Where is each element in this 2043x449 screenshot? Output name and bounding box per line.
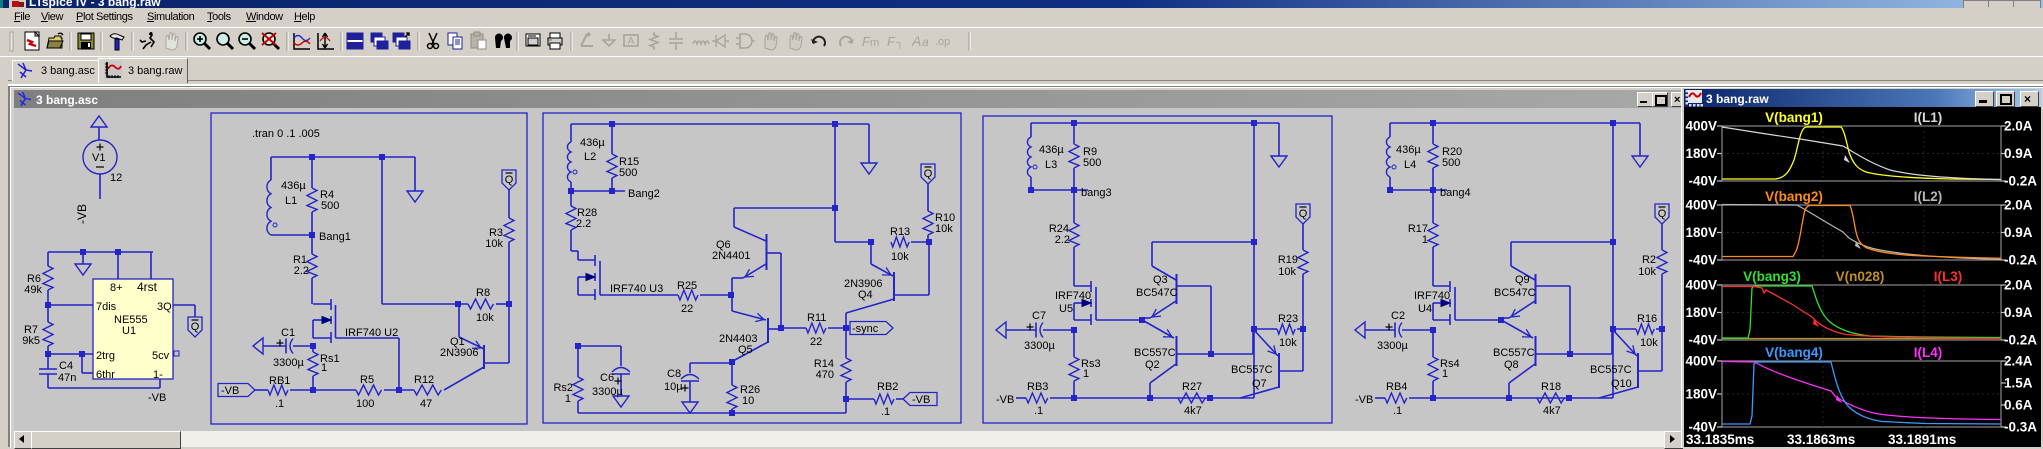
svg-text:400V: 400V xyxy=(1685,119,1717,134)
svg-text:-VB: -VB xyxy=(1355,394,1373,406)
svg-text:Q9: Q9 xyxy=(1515,274,1530,286)
wire gate xyxy=(600,294,678,296)
svg-text:a: a xyxy=(922,35,929,49)
svg-text:U1: U1 xyxy=(122,325,136,337)
waveform client area xyxy=(1684,107,2041,447)
wire bottom to pin 1 xyxy=(48,387,160,389)
svg-text:Q5: Q5 xyxy=(738,344,753,356)
svg-text:33.1891ms: 33.1891ms xyxy=(1888,432,1956,447)
capacitor C1 3300u xyxy=(253,327,313,369)
junction node bang4 xyxy=(1430,187,1436,193)
inductor L3 436u xyxy=(1027,123,1064,190)
main application title bar xyxy=(0,0,2043,8)
junction xyxy=(45,351,51,357)
svg-text:10k: 10k xyxy=(476,312,494,324)
svg-text:L2: L2 xyxy=(584,151,596,163)
svg-text:L1: L1 xyxy=(285,195,297,207)
svg-text:.1: .1 xyxy=(881,406,890,418)
resistor R4 500 xyxy=(307,157,339,235)
junction xyxy=(1387,187,1393,193)
resistor R8 10k xyxy=(468,287,494,324)
svg-text:V(bang4): V(bang4) xyxy=(1765,345,1823,360)
svg-text:0.9A: 0.9A xyxy=(2004,146,2033,161)
ground xyxy=(1278,123,1280,156)
ground xyxy=(613,396,629,407)
resistor R20 500 xyxy=(1428,123,1462,190)
svg-text:.op: .op xyxy=(935,36,950,48)
svg-text:R23: R23 xyxy=(1278,313,1298,325)
wire to bottom rail xyxy=(1612,329,1614,398)
toolbar icon: move (greyed) xyxy=(765,33,777,50)
toolbar icon: capacitor (greyed) xyxy=(669,32,683,50)
schematic window title bar (inactive) xyxy=(14,90,1681,108)
svg-text:500: 500 xyxy=(1442,157,1460,169)
junction node Bang1 xyxy=(309,232,315,238)
svg-text:F: F xyxy=(887,34,896,49)
svg-text:10µ: 10µ xyxy=(664,381,683,393)
transistor Q3 BC547C xyxy=(1136,242,1211,320)
wire top rail box4 xyxy=(1390,122,1640,124)
voltage source V1 12 xyxy=(83,140,122,184)
junction xyxy=(1498,317,1504,323)
waveform window frame xyxy=(1681,87,2043,448)
svg-text:Q10: Q10 xyxy=(1611,378,1632,390)
svg-text:2.2: 2.2 xyxy=(576,218,591,230)
resistor R19 10k xyxy=(1278,224,1308,329)
svg-text:A: A xyxy=(911,33,921,49)
svg-text:470: 470 xyxy=(816,369,834,381)
svg-text:22: 22 xyxy=(681,303,693,315)
wire xyxy=(781,327,806,329)
trace I(L2) xyxy=(1722,205,2001,260)
ground xyxy=(82,252,84,264)
svg-text:-40V: -40V xyxy=(1688,333,1717,348)
svg-text:Q: Q xyxy=(1299,208,1308,220)
svg-text:2.0A: 2.0A xyxy=(2004,198,2033,213)
svg-text:V(bang1): V(bang1) xyxy=(1765,110,1823,125)
svg-text:3300µ: 3300µ xyxy=(1024,340,1055,352)
svg-text:10k: 10k xyxy=(1640,337,1658,349)
junction xyxy=(1251,239,1257,245)
svg-text:400V: 400V xyxy=(1685,278,1717,293)
ground xyxy=(682,402,698,413)
svg-text:.tran 0 .1 .005: .tran 0 .1 .005 xyxy=(252,128,320,140)
svg-text:RB1: RB1 xyxy=(269,375,290,387)
wire xyxy=(828,327,850,329)
svg-text:Bang2: Bang2 xyxy=(628,188,660,200)
resistor Rs3 1 xyxy=(1069,330,1101,398)
svg-text:I(L1): I(L1) xyxy=(1914,110,1943,125)
inductor L1 436u xyxy=(267,157,306,235)
toolbar icon: cut xyxy=(428,33,439,49)
toolbar icon: run xyxy=(140,32,154,49)
resistor R9 500 xyxy=(1069,123,1101,190)
junction xyxy=(1567,351,1573,357)
svg-text:R16: R16 xyxy=(1637,313,1657,325)
junction xyxy=(1251,326,1257,332)
toolbar icon: diode (greyed) xyxy=(712,35,729,47)
resistor Rs1 1 xyxy=(308,346,340,390)
junction xyxy=(1610,120,1616,126)
junction node bang3 xyxy=(1071,187,1077,193)
junction xyxy=(843,396,849,402)
wire to pin 4 xyxy=(150,252,152,280)
svg-text:3Q: 3Q xyxy=(157,301,172,313)
toolbar icon: plot settings xyxy=(294,33,310,49)
resistor R7 9k5 xyxy=(22,305,53,354)
wire central vertical box4 xyxy=(1612,123,1614,329)
wire bases vertical xyxy=(780,253,782,328)
junction xyxy=(832,121,838,127)
svg-text:180V: 180V xyxy=(1685,387,1717,402)
tab: 3 bang.asc xyxy=(12,60,99,81)
svg-text:436µ: 436µ xyxy=(1039,144,1064,156)
wire xyxy=(98,127,100,140)
trace V(bang1) xyxy=(1722,127,2001,180)
svg-text:3300µ: 3300µ xyxy=(273,357,304,369)
junction xyxy=(1071,120,1077,126)
svg-text:1: 1 xyxy=(1442,368,1448,380)
wire xyxy=(384,389,414,391)
transistor Q10 BC557C xyxy=(1590,329,1662,398)
svg-text:-VB: -VB xyxy=(75,204,89,224)
junction xyxy=(309,154,315,160)
capacitor C8 10u xyxy=(664,363,699,402)
svg-text:R25: R25 xyxy=(677,280,697,292)
svg-text:R27: R27 xyxy=(1182,381,1202,393)
tab bar xyxy=(0,56,2043,88)
junction xyxy=(1071,327,1077,333)
wire central vertical xyxy=(381,157,383,304)
toolbar icon: tile vertically xyxy=(371,33,388,49)
junction xyxy=(609,121,615,127)
svg-text:2N4401: 2N4401 xyxy=(712,250,751,262)
junction xyxy=(115,249,121,255)
toolbar icon: component (greyed) xyxy=(736,34,755,48)
svg-text:bang3: bang3 xyxy=(1081,187,1112,199)
svg-text:-40V: -40V xyxy=(1688,253,1717,268)
wire xyxy=(911,241,929,243)
svg-text:BC557C: BC557C xyxy=(1590,364,1632,376)
svg-text:2N3906: 2N3906 xyxy=(440,347,479,359)
junction xyxy=(1610,239,1616,245)
resistor R14 470 xyxy=(814,328,851,399)
transistor Q2 BC557C xyxy=(1134,321,1211,398)
node Q flag xyxy=(1655,204,1669,224)
svg-text:I(L4): I(L4) xyxy=(1914,345,1943,360)
resistor R11 22 xyxy=(806,312,826,348)
svg-text:500: 500 xyxy=(1083,157,1101,169)
svg-text:Q: Q xyxy=(924,168,933,180)
svg-text:49k: 49k xyxy=(24,284,42,296)
resistor R16 10k xyxy=(1613,313,1662,349)
toolbar icon: inductor (greyed) xyxy=(693,41,709,44)
svg-text:.1: .1 xyxy=(1034,405,1043,417)
svg-text:33.1863ms: 33.1863ms xyxy=(1787,432,1855,447)
svg-text:12: 12 xyxy=(110,172,122,184)
svg-text:180V: 180V xyxy=(1685,225,1717,240)
svg-text:500: 500 xyxy=(619,167,637,179)
junction xyxy=(568,188,574,194)
wire Q9 collector to central xyxy=(1511,241,1613,243)
node Q flag xyxy=(921,164,935,184)
mosfet U3 IRF740 xyxy=(571,251,663,300)
junction xyxy=(1251,120,1257,126)
svg-text:-0.3A: -0.3A xyxy=(2004,420,2037,435)
wire bases vertical xyxy=(1569,286,1571,354)
junction xyxy=(379,154,385,160)
svg-text:IRF740: IRF740 xyxy=(1414,290,1450,302)
inductor L4 436u xyxy=(1386,123,1421,190)
mosfet U4 IRF740 xyxy=(1414,281,1455,325)
svg-text:0.9A: 0.9A xyxy=(2004,225,2033,240)
svg-text:R18: R18 xyxy=(1541,381,1561,393)
resistor R15 500 xyxy=(607,124,639,191)
toolbar icon: rotate (greyed) xyxy=(887,34,904,50)
junction xyxy=(79,351,85,357)
trace V(bang4) xyxy=(1722,362,2001,424)
svg-text:2.0A: 2.0A xyxy=(2004,119,2033,134)
junction xyxy=(45,302,51,308)
svg-text:2.0A: 2.0A xyxy=(2004,278,2033,293)
junction xyxy=(1566,395,1572,401)
junction xyxy=(396,387,402,393)
wire to bottom rail xyxy=(1253,329,1255,398)
svg-text:500: 500 xyxy=(321,200,339,212)
tab: 3 bang.raw (active) xyxy=(98,58,188,83)
wire central vertical box2 xyxy=(834,124,836,242)
waveform plot panes xyxy=(1685,110,2037,189)
svg-text:I(L2): I(L2) xyxy=(1914,189,1943,204)
svg-text:RB4: RB4 xyxy=(1386,381,1407,393)
svg-text:180V: 180V xyxy=(1685,305,1717,320)
resistor R13 10k xyxy=(890,226,910,263)
toolbar icon: cascade xyxy=(393,33,410,49)
schematic sheet xyxy=(14,108,1681,431)
svg-text:R19: R19 xyxy=(1278,254,1298,266)
svg-text:-40V: -40V xyxy=(1688,174,1717,189)
transistor Q6 2N4401 xyxy=(712,208,781,295)
wire xyxy=(1570,353,1612,355)
wire bottom rail box2 xyxy=(578,412,846,414)
svg-text:R2: R2 xyxy=(1642,254,1656,266)
svg-text:Q2: Q2 xyxy=(1145,359,1160,371)
svg-text:436µ: 436µ xyxy=(281,180,306,192)
junction xyxy=(926,239,932,245)
svg-text:10: 10 xyxy=(742,395,754,407)
svg-text:-sync: -sync xyxy=(852,323,879,335)
capacitor C4 47n xyxy=(39,354,76,388)
svg-text:1: 1 xyxy=(1083,368,1089,380)
svg-text:C7: C7 xyxy=(1032,310,1046,322)
junction xyxy=(1430,120,1436,126)
svg-text:R11: R11 xyxy=(807,312,826,324)
wire xyxy=(496,303,509,305)
junction xyxy=(310,343,316,349)
toolbar icon: copy xyxy=(448,33,462,49)
svg-text:-0.2A: -0.2A xyxy=(2004,333,2037,348)
ground xyxy=(1639,123,1641,156)
svg-text:2.2: 2.2 xyxy=(294,265,309,277)
resistor RB4 .1 xyxy=(1375,381,1407,417)
svg-text:1.5A: 1.5A xyxy=(2004,376,2033,391)
junction xyxy=(1430,327,1436,333)
node Q flag xyxy=(502,170,516,190)
svg-text:10k: 10k xyxy=(1278,266,1296,278)
node Q flag xyxy=(188,317,202,337)
svg-text:U4: U4 xyxy=(1418,303,1432,315)
transistor Q7 BC557C xyxy=(1231,329,1303,398)
toolbar icon: zoom full extents xyxy=(262,33,279,49)
svg-text:10k: 10k xyxy=(891,251,909,263)
junction xyxy=(506,301,512,307)
junction xyxy=(868,239,874,245)
junction xyxy=(575,343,581,349)
svg-text:C6: C6 xyxy=(600,372,614,384)
svg-text:-0.2A: -0.2A xyxy=(2004,253,2037,268)
wire gate xyxy=(336,337,400,339)
junction xyxy=(1139,317,1145,323)
resistor RB3 .1 xyxy=(1016,381,1048,417)
wire xyxy=(700,294,731,296)
svg-text:C1: C1 xyxy=(281,327,295,339)
toolbar icon: tile horizontally xyxy=(347,33,363,49)
svg-text:7dis: 7dis xyxy=(96,301,117,313)
resistor R17 1 xyxy=(1408,190,1438,286)
transistor Q4 2N3906 xyxy=(844,242,929,328)
window buttons top right xyxy=(1963,0,2041,9)
trace V(bang3) xyxy=(1722,286,2001,338)
circuit box 3 border xyxy=(983,116,1332,423)
circuit box 2 border xyxy=(543,113,961,423)
junction xyxy=(1207,395,1213,401)
svg-text:-VB: -VB xyxy=(148,392,166,404)
svg-text:1: 1 xyxy=(321,362,327,374)
trace I(L3) xyxy=(1722,287,2001,339)
toolbar icon: zoom area xyxy=(217,33,233,49)
menu bar xyxy=(0,8,2043,27)
junction xyxy=(1300,326,1306,332)
wire Q6 collector to rail xyxy=(734,207,835,209)
svg-text:.1: .1 xyxy=(275,398,284,410)
svg-text:BC557C: BC557C xyxy=(1231,364,1273,376)
svg-text:1: 1 xyxy=(1422,234,1428,246)
toolbar icon: paste (greyed) xyxy=(471,32,486,49)
wire xyxy=(1390,189,1447,191)
capacitor C2 3300u xyxy=(1355,310,1433,352)
svg-text:C2: C2 xyxy=(1391,310,1405,322)
wire NE555 top rail xyxy=(48,251,153,253)
resistor R1 2.2 xyxy=(293,235,317,304)
wire to 6thr xyxy=(81,354,83,373)
wire central vertical box3 xyxy=(1253,123,1255,329)
svg-text:Q: Q xyxy=(191,321,200,333)
junction xyxy=(729,410,735,416)
svg-text:436µ: 436µ xyxy=(580,137,605,149)
svg-text:-VB: -VB xyxy=(221,385,239,397)
junction xyxy=(778,325,784,331)
svg-text:4k7: 4k7 xyxy=(1184,405,1202,417)
svg-text:Q7: Q7 xyxy=(1252,378,1267,390)
wire to 7dis xyxy=(48,304,93,306)
svg-text:Q: Q xyxy=(505,174,514,186)
toolbar icon: ground (greyed) xyxy=(603,34,615,46)
svg-text:-VB: -VB xyxy=(912,394,930,406)
junction xyxy=(1071,395,1077,401)
mosfet U2 IRF740 xyxy=(313,299,398,343)
resistor R5 100 xyxy=(356,374,382,410)
svg-text:Q8: Q8 xyxy=(1504,359,1519,371)
toolbar icon: undo xyxy=(811,37,825,46)
junction xyxy=(1659,326,1665,332)
svg-text:8+: 8+ xyxy=(110,282,123,294)
toolbar icon: print preview xyxy=(526,34,540,46)
svg-text:V1: V1 xyxy=(92,152,105,164)
svg-text:4k7: 4k7 xyxy=(1543,405,1561,417)
power flag above V1 xyxy=(91,116,107,127)
svg-text:C8: C8 xyxy=(667,368,681,380)
svg-text:10k: 10k xyxy=(1279,337,1297,349)
wire top rail box1 xyxy=(271,156,415,158)
svg-text:V(bang3): V(bang3) xyxy=(1743,269,1801,284)
toolbar icon: print xyxy=(548,33,562,49)
toolbar icon: resistor (greyed) xyxy=(650,32,658,50)
wire xyxy=(571,190,625,192)
svg-text:5cv: 5cv xyxy=(152,350,170,362)
svg-text:L4: L4 xyxy=(1404,159,1416,171)
toolbar xyxy=(0,27,2043,58)
svg-text:IRF740 U3: IRF740 U3 xyxy=(610,283,663,295)
svg-text:2.2: 2.2 xyxy=(1055,234,1070,246)
toolbar icon: text (greyed) xyxy=(911,33,929,49)
resistor R26 10 xyxy=(727,362,760,413)
node Q flag xyxy=(1296,204,1310,224)
junction xyxy=(832,205,838,211)
svg-text:Q4: Q4 xyxy=(858,289,873,301)
svg-text:33.1835ms: 33.1835ms xyxy=(1686,432,1754,447)
svg-text:3300µ: 3300µ xyxy=(1377,340,1408,352)
wire top rail box3 xyxy=(1031,122,1279,124)
junction xyxy=(1430,395,1436,401)
toolbar icon: zoom + xyxy=(194,33,210,49)
svg-text:-0.2A: -0.2A xyxy=(2004,174,2037,189)
svg-text:R8: R8 xyxy=(476,287,490,299)
svg-text:2trg: 2trg xyxy=(96,350,115,362)
svg-text:R13: R13 xyxy=(890,226,910,238)
wire to pin 8 xyxy=(117,252,119,280)
op-amp U1 NE555 xyxy=(93,279,173,381)
wire Q3 collector to central xyxy=(1152,241,1254,243)
wire R8 row xyxy=(382,303,468,305)
svg-text:BC547C: BC547C xyxy=(1494,287,1536,299)
junction xyxy=(80,249,86,255)
wire gate xyxy=(1096,319,1142,321)
waveform window title bar (active) xyxy=(1684,89,2041,107)
capacitor C7 3300u xyxy=(996,310,1074,352)
resistor R28 2.2 xyxy=(566,191,597,251)
svg-text:2.4A: 2.4A xyxy=(2004,354,2033,369)
svg-text:180V: 180V xyxy=(1685,146,1717,161)
trace V(bang2) xyxy=(1722,206,2001,259)
circuit box 1 border xyxy=(211,113,527,424)
svg-text:.1: .1 xyxy=(1393,405,1402,417)
svg-text:U5: U5 xyxy=(1059,303,1073,315)
trace V(n028) xyxy=(1722,338,2001,340)
toolbar icon: label (greyed) xyxy=(624,35,638,47)
toolbar icon: find xyxy=(495,34,512,48)
resistor R18 4k7 xyxy=(1537,381,1564,417)
resistor R23 10k xyxy=(1254,313,1303,349)
